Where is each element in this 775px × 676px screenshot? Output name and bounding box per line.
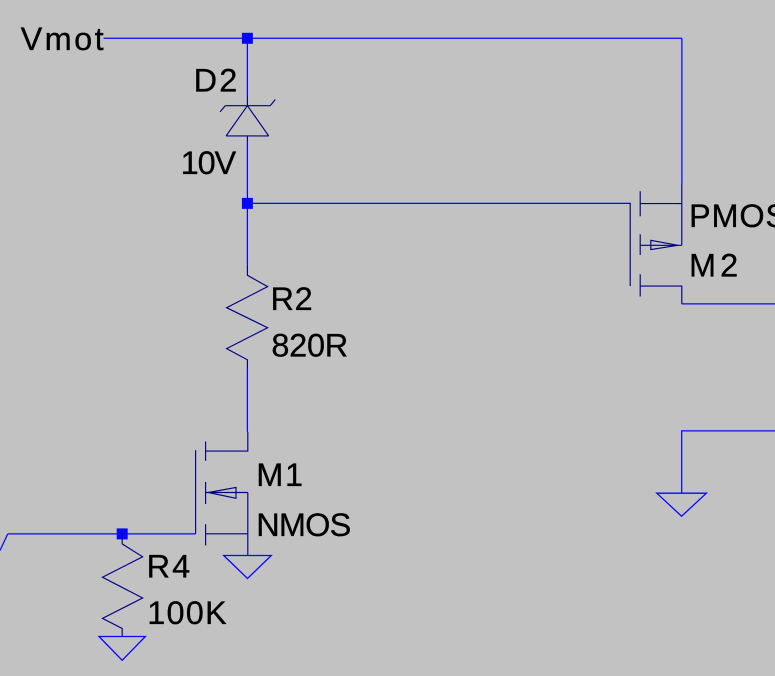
ground under M1 (224, 556, 272, 579)
wire R2 to M1 drain (246, 369, 248, 432)
transistor M2 PMOS (630, 184, 682, 304)
junction at Vmot (242, 33, 253, 44)
wire right spine down to M2 source (681, 38, 683, 183)
zener diode D2 (220, 97, 275, 141)
ground right (657, 493, 707, 516)
junction at M1 gate / R4 (117, 528, 128, 539)
transistor M1 NMOS (196, 432, 248, 556)
svg-text:NMOS: NMOS (256, 507, 350, 543)
wire diagonal bottom-left (0, 534, 8, 551)
wire zener D2 to R2 (246, 141, 248, 265)
wire M2 drain to right edge (682, 303, 775, 305)
wire gate of M1 horizontal (8, 533, 196, 535)
junction at zener/gate node (242, 198, 253, 209)
svg-text:M1: M1 (256, 457, 305, 493)
svg-text:Vmot: Vmot (21, 21, 106, 57)
ground under R4 (99, 637, 145, 661)
svg-text:M2: M2 (689, 248, 742, 284)
resistor R2 (227, 265, 268, 370)
wire junction top to zener D2 (246, 38, 248, 97)
svg-text:100K: 100K (147, 595, 228, 631)
svg-text:10V: 10V (181, 145, 237, 181)
svg-text:PMOS: PMOS (689, 198, 775, 234)
wire Vmot top horizontal (104, 37, 682, 39)
wire right edge to ground (682, 431, 775, 493)
wire mid horizontal to M2 gate (247, 202, 630, 204)
svg-text:D2: D2 (194, 62, 240, 98)
svg-text:R4: R4 (147, 549, 193, 585)
resistor R4 (103, 534, 143, 637)
svg-text:820R: 820R (271, 328, 348, 364)
svg-text:R2: R2 (271, 281, 314, 317)
